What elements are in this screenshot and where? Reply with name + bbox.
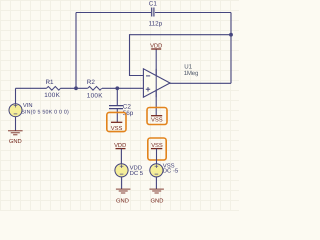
svg-text:VSS: VSS: [151, 142, 163, 149]
power port VSS below C2: [107, 112, 126, 131]
svg-text:C1: C1: [149, 0, 158, 7]
wire: op-amp output: [170, 82, 232, 84]
svg-text:100K: 100K: [44, 92, 60, 99]
wire: C2 branch from input node: [116, 88, 118, 105]
svg-text:SIN(0 5 50K 0 0 0): SIN(0 5 50K 0 0 0): [21, 109, 69, 115]
svg-text:GND: GND: [116, 198, 129, 205]
svg-text:VSS: VSS: [151, 117, 163, 124]
resistor R2: [87, 79, 103, 99]
svg-text:112p: 112p: [149, 21, 163, 28]
power port VSS supply (bottom): [148, 138, 166, 160]
power port VSS below op-amp: [147, 108, 167, 125]
svg-text:100K: 100K: [87, 92, 103, 99]
ground GND under V2: [149, 189, 164, 205]
power port VDD supply (bottom): [114, 143, 126, 149]
svg-text:GND: GND: [9, 138, 22, 145]
junction node output/inner loop: [229, 33, 233, 37]
wire: VDD port to V1: [120, 149, 122, 164]
svg-text:GND: GND: [151, 198, 164, 205]
wire: VIN bottom to ground: [15, 117, 17, 131]
wire: top feedback through C1: [76, 12, 231, 14]
junction node R2/C2/+input: [115, 86, 119, 90]
svg-text:DC -5: DC -5: [163, 168, 179, 175]
wire: right vertical output feedback: [230, 13, 232, 84]
svg-text:R2: R2: [87, 79, 96, 86]
wire: VIN top to input line: [15, 88, 17, 103]
svg-text:VSS: VSS: [111, 125, 123, 132]
svg-text:R1: R1: [46, 79, 55, 86]
junction node R1-R2/C1 loop: [74, 86, 78, 90]
ground GND under VIN: [8, 131, 23, 145]
voltage source V1 VDD DC 5: [115, 164, 144, 177]
wire: V1 to ground: [121, 177, 123, 189]
svg-text:VDD: VDD: [150, 44, 162, 50]
wire: C2 bottom to VSS: [116, 109, 118, 122]
wire: left vertical from C1 loop to R1/R2 node: [75, 13, 77, 89]
wire: V2 to ground: [155, 177, 157, 189]
power port VDD above op-amp: [150, 44, 162, 50]
resistor R1: [44, 79, 60, 99]
svg-text:1Meg: 1Meg: [184, 70, 198, 77]
wire: main input line: [16, 87, 144, 89]
svg-text:DC 5: DC 5: [130, 170, 144, 177]
svg-text:VIN: VIN: [23, 103, 33, 109]
voltage source VIN: [9, 103, 69, 117]
capacitor C1: [149, 0, 163, 27]
ground GND under V1: [116, 189, 130, 205]
op-amp U1: [143, 63, 198, 97]
wire: inner feedback loop to inverting input: [130, 35, 232, 76]
capacitor C2: [109, 104, 134, 117]
svg-text:56p: 56p: [123, 110, 134, 117]
voltage source V2 VSS DC -5: [150, 163, 179, 177]
wire: op-amp power pins vertical: [155, 49, 157, 116]
wire: VSS port to V2: [156, 149, 158, 164]
